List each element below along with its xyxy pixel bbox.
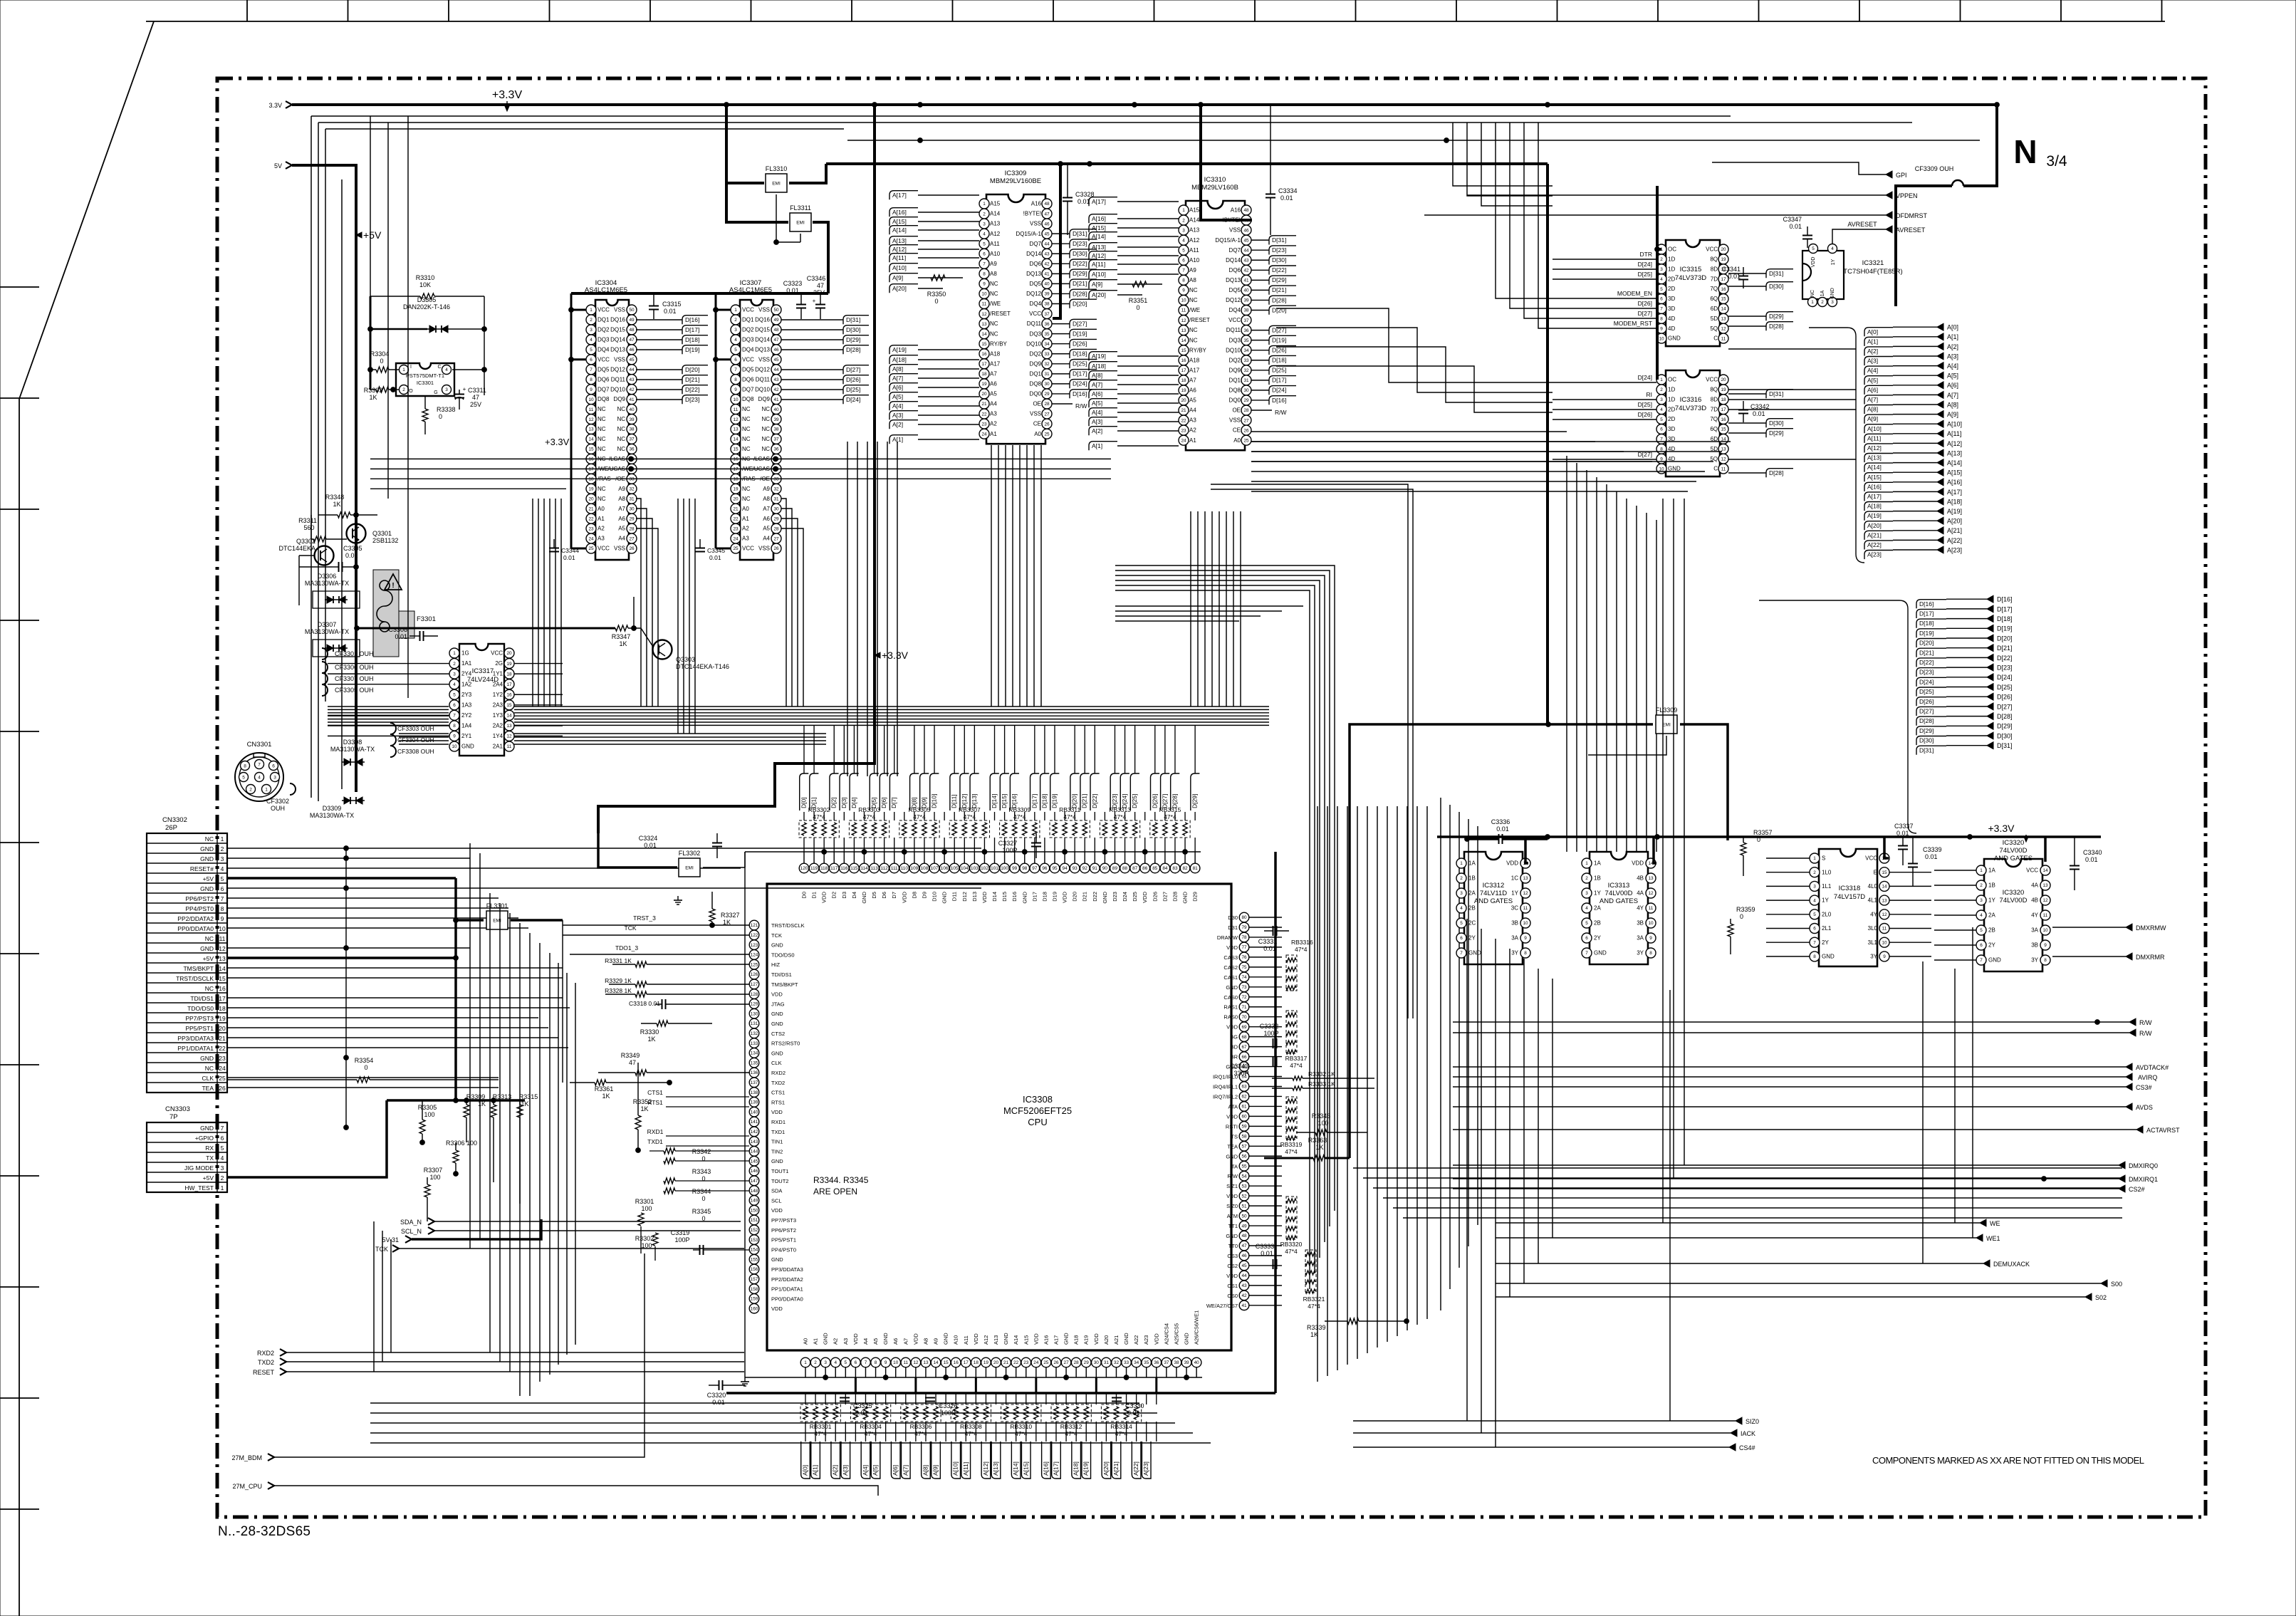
bus flags A[..] left of IC3310	[1089, 197, 1117, 451]
svg-text:R3357: R3357	[1753, 829, 1773, 836]
svg-text:5: 5	[983, 241, 986, 246]
svg-text:IRQ7/IPL2: IRQ7/IPL2	[1213, 1093, 1238, 1100]
svg-text:IC3301: IC3301	[417, 380, 434, 386]
svg-text:36: 36	[1243, 328, 1249, 333]
svg-text:D[18]: D[18]	[1040, 794, 1048, 808]
svg-text:R/W: R/W	[2139, 1030, 2152, 1037]
svg-text:DQ9: DQ9	[614, 396, 626, 402]
svg-text:RESET: RESET	[253, 1369, 275, 1376]
svg-text:NC: NC	[742, 406, 751, 412]
svg-text:D[18]: D[18]	[1997, 615, 2013, 622]
svg-text:Q3302: Q3302	[296, 538, 315, 545]
svg-text:42: 42	[1243, 269, 1249, 273]
svg-text:6: 6	[855, 1360, 857, 1365]
svg-text:PP2/DDATA2: PP2/DDATA2	[177, 915, 214, 922]
svg-text:11: 11	[1721, 336, 1726, 341]
capacitor C3308	[388, 626, 438, 641]
svg-text:CF3309 OUH: CF3309 OUH	[1915, 165, 1954, 172]
svg-text:DQ6: DQ6	[1229, 267, 1241, 273]
svg-text:+3.3V: +3.3V	[545, 437, 570, 447]
svg-text:D[23]: D[23]	[1272, 246, 1286, 254]
svg-text:22: 22	[1013, 1360, 1019, 1365]
svg-text:A10: A10	[953, 1335, 959, 1345]
svg-text:NC: NC	[205, 985, 214, 992]
svg-text:6: 6	[734, 358, 737, 363]
svg-text:TRST/DSCLK: TRST/DSCLK	[176, 975, 214, 982]
signal ACTAVRST	[1453, 1126, 2180, 1134]
svg-text:3A: 3A	[1637, 935, 1644, 942]
svg-text:D[27]: D[27]	[1638, 310, 1652, 317]
svg-text:DQ6: DQ6	[598, 376, 610, 382]
svg-text:VSS: VSS	[1030, 411, 1041, 417]
svg-text:NC: NC	[598, 426, 606, 432]
svg-text:A6: A6	[1189, 387, 1196, 394]
svg-text:TXD2: TXD2	[771, 1080, 785, 1086]
svg-text:10K: 10K	[419, 281, 431, 288]
svg-text:A[20]: A[20]	[1867, 522, 1882, 529]
svg-text:37: 37	[1164, 1360, 1169, 1365]
svg-text:C3315: C3315	[662, 301, 682, 308]
svg-text:A[9]: A[9]	[932, 1465, 939, 1476]
svg-text:D[20]: D[20]	[1919, 640, 1934, 647]
svg-text:R/W: R/W	[1227, 1173, 1238, 1179]
svg-text:D[24]: D[24]	[1121, 794, 1128, 808]
svg-text:D28: D28	[1172, 892, 1178, 902]
svg-text:D[28]: D[28]	[1769, 323, 1783, 330]
svg-text:D[30]: D[30]	[1769, 283, 1783, 290]
svg-text:107: 107	[931, 866, 939, 871]
svg-text:IC3321: IC3321	[1862, 259, 1884, 267]
svg-text:47*4: 47*4	[1285, 1248, 1298, 1255]
svg-text:DQ0: DQ0	[1030, 391, 1042, 397]
svg-text:7: 7	[1585, 951, 1588, 956]
svg-text:12: 12	[506, 734, 512, 739]
svg-text:GND: GND	[200, 945, 214, 952]
svg-text:9: 9	[1649, 936, 1652, 941]
svg-text:GND: GND	[1822, 954, 1835, 960]
svg-text:9: 9	[221, 915, 224, 922]
wire left lower verticals	[374, 1221, 391, 1372]
svg-text:4: 4	[1585, 906, 1588, 911]
CPU left pin column	[749, 920, 804, 1313]
svg-text:3: 3	[1585, 891, 1588, 896]
svg-text:VSS: VSS	[758, 546, 770, 552]
svg-text:0: 0	[439, 413, 442, 420]
svg-text:SDA_N: SDA_N	[400, 1219, 422, 1226]
wire FL3309 sense	[1588, 736, 1666, 755]
svg-text:A[8]: A[8]	[1867, 406, 1878, 413]
capacitor C3343	[1230, 1056, 1277, 1077]
svg-text:/WE: /WE	[1189, 307, 1200, 313]
svg-text:330P: 330P	[1233, 1070, 1248, 1077]
svg-text:VDD: VDD	[821, 891, 828, 902]
svg-text:C3320: C3320	[707, 1392, 726, 1399]
svg-text:RB3316: RB3316	[1291, 939, 1313, 946]
svg-text:R/W: R/W	[2139, 1019, 2152, 1026]
svg-text:9: 9	[1883, 954, 1886, 959]
svg-text:98: 98	[1022, 866, 1028, 871]
svg-text:A10: A10	[1189, 257, 1200, 264]
wire flash-CPU verticals	[847, 442, 897, 776]
svg-text:E: E	[1874, 869, 1877, 875]
svg-text:VDD: VDD	[1226, 1193, 1238, 1199]
svg-text:3: 3	[221, 1164, 224, 1172]
svg-text:A19: A19	[1083, 1335, 1090, 1345]
svg-text:DQ6: DQ6	[1030, 261, 1042, 267]
svg-text:15: 15	[219, 975, 226, 982]
junction dots rail D	[918, 138, 923, 143]
svg-text:8: 8	[983, 272, 986, 277]
svg-text:11: 11	[1523, 906, 1528, 911]
svg-text:C: C	[1713, 466, 1718, 472]
svg-text:1K: 1K	[619, 640, 627, 647]
svg-text:NC: NC	[205, 1065, 214, 1072]
svg-text:DQ1: DQ1	[1030, 370, 1042, 377]
svg-text:4Y: 4Y	[2031, 912, 2038, 919]
svg-text:R3333 1K: R3333 1K	[1308, 1080, 1335, 1088]
wire thin rail C	[325, 128, 844, 130]
connector CN3303 7P	[147, 1105, 227, 1192]
svg-text:PP7/PST3: PP7/PST3	[771, 1217, 796, 1224]
wire FL3310 sense	[776, 194, 800, 242]
svg-text:42: 42	[773, 387, 779, 392]
svg-text:DQ9: DQ9	[1229, 367, 1241, 373]
svg-text:D[18]: D[18]	[1919, 620, 1934, 627]
svg-text:A[10]: A[10]	[892, 264, 907, 271]
wire CN3303 +5V thick	[227, 1100, 387, 1177]
resistor R3306	[446, 1140, 477, 1176]
svg-text:26: 26	[1243, 428, 1249, 433]
svg-text:A[3]: A[3]	[842, 1465, 849, 1476]
svg-text:D[17]: D[17]	[1272, 377, 1286, 384]
regulator IC3301 PST575DMT-T1	[396, 363, 454, 396]
svg-text:D[16]: D[16]	[1073, 390, 1087, 397]
svg-text:7: 7	[221, 895, 224, 902]
svg-text:A13: A13	[1189, 227, 1200, 234]
svg-text:NC: NC	[990, 320, 998, 327]
signal CS4#	[1353, 1444, 1755, 1451]
svg-text:CTS1: CTS1	[647, 1089, 663, 1096]
resistor packs RB3301-RB3314 below CPU	[800, 1404, 1142, 1437]
svg-text:CAS3: CAS3	[1223, 954, 1238, 961]
svg-text:560: 560	[303, 524, 314, 531]
svg-text:A9: A9	[1189, 267, 1196, 273]
svg-text:1: 1	[402, 367, 405, 372]
svg-text:D[17]: D[17]	[1073, 370, 1087, 377]
svg-text:1D: 1D	[1668, 256, 1675, 263]
svg-text:2SB1132: 2SB1132	[372, 537, 398, 544]
svg-text:TXD1: TXD1	[647, 1138, 663, 1145]
svg-text:A7: A7	[618, 506, 625, 512]
wires IC3317 right	[514, 664, 563, 736]
junction dots mid rail	[1058, 162, 1063, 167]
resistor R3351	[1129, 281, 1148, 311]
svg-text:25: 25	[219, 1075, 226, 1082]
signal AVDS	[1453, 1103, 2153, 1111]
svg-text:14: 14	[588, 437, 594, 442]
svg-text:9: 9	[1524, 936, 1527, 941]
svg-text:PP5/PST1: PP5/PST1	[185, 1025, 214, 1032]
svg-text:43: 43	[1044, 251, 1050, 256]
svg-text:10: 10	[1523, 921, 1528, 926]
svg-text:55: 55	[1241, 1164, 1247, 1169]
svg-text:NC: NC	[742, 426, 751, 432]
svg-text:3D: 3D	[1668, 426, 1675, 432]
svg-text:41: 41	[1243, 278, 1249, 283]
signal VPPEN	[1467, 192, 1918, 199]
svg-text:I: I	[410, 365, 412, 370]
svg-text:D[30]: D[30]	[1272, 256, 1286, 264]
transistor Q3301 2SB1132	[347, 515, 399, 544]
svg-text:50: 50	[629, 308, 635, 313]
svg-text:DEMUXACK: DEMUXACK	[1993, 1261, 2030, 1268]
svg-text:4: 4	[1980, 913, 1983, 918]
capacitor C3342	[1738, 401, 1770, 422]
svg-text:3B: 3B	[1511, 920, 1518, 927]
svg-text:19: 19	[1181, 388, 1186, 393]
svg-text:19: 19	[506, 662, 512, 667]
svg-text:20: 20	[1721, 377, 1726, 382]
bus flags D[..] right of IC3310	[1251, 236, 1296, 416]
svg-text:A[12]: A[12]	[1867, 444, 1882, 452]
svg-text:5: 5	[590, 348, 593, 353]
wire FL3301 out	[511, 919, 563, 922]
svg-text:5: 5	[734, 348, 737, 353]
svg-text:22: 22	[733, 516, 739, 521]
svg-text:24: 24	[1033, 1360, 1039, 1365]
svg-text:DQ1: DQ1	[742, 317, 754, 323]
svg-text:79: 79	[1241, 925, 1247, 930]
svg-text:14: 14	[1181, 338, 1186, 343]
svg-text:R3361: R3361	[595, 1085, 614, 1093]
svg-text:3L0: 3L0	[1868, 925, 1878, 932]
svg-text:RTS1: RTS1	[771, 1099, 785, 1105]
svg-text:137: 137	[751, 1080, 758, 1085]
svg-text:D[25]: D[25]	[1272, 367, 1286, 374]
svg-text:4: 4	[1660, 277, 1663, 282]
svg-text:DQ3: DQ3	[742, 336, 754, 343]
svg-text:39: 39	[1243, 298, 1249, 303]
resistor packs RB3302-RB3315 above CPU	[799, 806, 1190, 838]
svg-text:VDD: VDD	[852, 1333, 859, 1345]
svg-text:73: 73	[1241, 985, 1247, 990]
svg-text:R3330: R3330	[640, 1028, 659, 1036]
svg-text:90: 90	[1102, 866, 1108, 871]
svg-text:A[16]: A[16]	[1947, 479, 1962, 486]
resistors R3332 R3333	[1272, 1070, 1374, 1090]
svg-text:D18: D18	[1041, 892, 1048, 902]
svg-text:7: 7	[1460, 951, 1463, 956]
svg-text:40: 40	[629, 407, 635, 412]
svg-text:3B: 3B	[2031, 942, 2038, 949]
flash IC3309 MBM29LV160BE	[979, 170, 1052, 444]
vertical GND junction column x486	[345, 848, 347, 1127]
svg-text:146: 146	[751, 1169, 758, 1174]
svg-text:VCC: VCC	[2026, 867, 2038, 874]
svg-text:A[3]: A[3]	[1947, 353, 1958, 360]
wires CPU bottom stubs to A flags	[805, 1393, 1157, 1442]
svg-text:47: 47	[1241, 1244, 1247, 1249]
svg-text:42: 42	[629, 387, 635, 392]
net RESET entry	[253, 1368, 744, 1376]
svg-text:5: 5	[453, 692, 456, 697]
svg-text:A15: A15	[1189, 207, 1200, 214]
svg-text:GND: GND	[1102, 891, 1108, 903]
svg-text:30: 30	[773, 506, 779, 511]
logic IC3313 74LV00D	[1582, 852, 1656, 964]
svg-text:BR: BR	[1231, 1054, 1238, 1060]
svg-text:82: 82	[1182, 866, 1188, 871]
svg-text:25: 25	[1043, 1360, 1049, 1365]
svg-text:10: 10	[893, 1360, 899, 1365]
wire mid horizontals	[1251, 442, 1731, 491]
svg-text:10: 10	[981, 292, 987, 297]
svg-text:D[23]: D[23]	[1919, 669, 1934, 676]
svg-text:3D: 3D	[1668, 306, 1675, 312]
svg-text:NC: NC	[1189, 327, 1198, 333]
sheet top ruler ticks	[247, 0, 2162, 21]
svg-text:R3306 100: R3306 100	[446, 1140, 477, 1147]
wire IC3301 cluster	[368, 296, 487, 395]
wire long verticals right of CPU	[1467, 499, 1684, 1447]
svg-text:32: 32	[1044, 362, 1050, 367]
svg-text:132: 132	[751, 1031, 758, 1036]
svg-text:74LV00D: 74LV00D	[2000, 847, 2028, 855]
svg-text:7: 7	[1182, 269, 1185, 273]
svg-text:C3345: C3345	[707, 547, 725, 554]
svg-text:A16: A16	[1031, 201, 1042, 207]
DRAM IC3304 A54LC1M65E5	[585, 279, 637, 560]
svg-text:36: 36	[773, 447, 779, 452]
svg-text:46: 46	[1243, 228, 1249, 233]
svg-text:2B: 2B	[1468, 905, 1476, 912]
svg-text:GND: GND	[200, 845, 214, 853]
resistor R3309	[464, 1093, 486, 1142]
svg-text:A[19]: A[19]	[1947, 508, 1962, 515]
svg-text:A[2]: A[2]	[832, 1465, 839, 1476]
svg-text:NC: NC	[742, 496, 751, 502]
svg-text:A[20]: A[20]	[1092, 291, 1106, 298]
svg-text:30: 30	[1094, 1360, 1100, 1365]
svg-text:D[16]: D[16]	[1919, 600, 1934, 608]
svg-text:A18: A18	[990, 350, 1001, 357]
svg-text:7: 7	[865, 1360, 867, 1365]
svg-text:1K: 1K	[640, 1105, 648, 1112]
svg-text:A[18]: A[18]	[892, 356, 907, 363]
svg-text:D15: D15	[1001, 892, 1008, 902]
svg-text:46: 46	[1044, 221, 1050, 226]
svg-text:7Q: 7Q	[1710, 416, 1718, 422]
svg-text:C3336: C3336	[1491, 818, 1510, 825]
svg-text:NC: NC	[742, 446, 751, 452]
svg-text:8: 8	[244, 763, 246, 768]
svg-text:4: 4	[1831, 246, 1834, 251]
svg-text:17: 17	[219, 995, 226, 1002]
svg-text:A[8]: A[8]	[1092, 372, 1102, 379]
svg-text:40: 40	[1194, 1360, 1200, 1365]
svg-text:17: 17	[981, 362, 987, 367]
svg-text:A[16]: A[16]	[1867, 483, 1882, 490]
capacitor C3341	[1721, 266, 1748, 288]
svg-text:DQ12: DQ12	[1226, 297, 1241, 303]
svg-text:2A: 2A	[1468, 890, 1476, 897]
svg-text:NC: NC	[205, 935, 214, 942]
svg-text:DQ1: DQ1	[1229, 377, 1241, 383]
svg-text:D[17]: D[17]	[1997, 605, 2013, 612]
svg-text:37: 37	[773, 437, 779, 442]
svg-text:12: 12	[1721, 326, 1726, 331]
svg-text:122: 122	[751, 933, 758, 938]
svg-text:A[18]: A[18]	[1073, 1461, 1080, 1476]
svg-text:A[10]: A[10]	[1947, 421, 1962, 428]
svg-text:A[11]: A[11]	[1092, 261, 1105, 268]
svg-text:15: 15	[1181, 348, 1186, 353]
svg-text:MODEM_RST: MODEM_RST	[1614, 320, 1652, 327]
svg-text:100: 100	[424, 1111, 434, 1118]
svg-text:12: 12	[1523, 891, 1528, 896]
capacitor C3347	[1783, 216, 1812, 248]
svg-text:RESET#: RESET#	[190, 865, 214, 872]
resistor R3304	[370, 350, 399, 372]
svg-text:C3323: C3323	[783, 280, 803, 287]
svg-text:1G: 1G	[461, 650, 469, 657]
svg-text:A23: A23	[1143, 1335, 1149, 1345]
capacitor C3331	[1258, 926, 1289, 952]
svg-text:24: 24	[588, 536, 594, 541]
svg-text:D[27]: D[27]	[1161, 794, 1168, 808]
svg-text:13: 13	[1181, 328, 1186, 333]
svg-text:A[22]: A[22]	[1947, 537, 1962, 544]
svg-text:A1: A1	[742, 516, 749, 522]
svg-text:1B: 1B	[1988, 882, 1995, 889]
svg-text:GND: GND	[1184, 1333, 1190, 1345]
svg-text:GND: GND	[200, 885, 214, 892]
svg-text:A[20]: A[20]	[892, 285, 907, 292]
svg-text:A[7]: A[7]	[892, 375, 903, 382]
svg-text:A2: A2	[742, 526, 749, 532]
svg-text:1A: 1A	[1988, 867, 1995, 874]
svg-text:SIZ0: SIZ0	[1226, 1203, 1238, 1209]
svg-text:22: 22	[219, 1045, 226, 1052]
svg-text:57: 57	[1241, 1145, 1247, 1150]
svg-text:EMI: EMI	[1662, 723, 1671, 728]
svg-text:A[2]: A[2]	[1867, 348, 1878, 355]
wire thick 3.3V column x1228	[598, 105, 875, 833]
svg-text:A5: A5	[1189, 397, 1196, 404]
svg-text:A0: A0	[1233, 437, 1241, 444]
svg-text:50: 50	[1241, 1214, 1247, 1219]
svg-text:C3305: C3305	[343, 545, 362, 552]
svg-text:39: 39	[1184, 1360, 1189, 1365]
resistor R3354	[227, 1057, 499, 1083]
svg-text:4L1: 4L1	[1868, 897, 1878, 904]
junction dots on 3.3V rail	[724, 103, 729, 108]
svg-text:9: 9	[983, 282, 986, 287]
svg-text:DQ6: DQ6	[742, 376, 754, 382]
svg-text:1K: 1K	[478, 1100, 486, 1107]
svg-text:1D: 1D	[1668, 387, 1675, 393]
svg-text:D5: D5	[871, 892, 877, 899]
svg-text:A[9]: A[9]	[1092, 281, 1102, 288]
diode pack D3309 MA3130WA-TX	[310, 797, 365, 819]
svg-text:A[1]: A[1]	[812, 1465, 819, 1476]
svg-text:A[23]: A[23]	[1142, 1461, 1149, 1476]
svg-text:0.01: 0.01	[1496, 825, 1509, 833]
svg-text:A14: A14	[1013, 1335, 1019, 1345]
svg-text:DQ11: DQ11	[611, 376, 626, 382]
svg-text:TEA: TEA	[202, 1085, 214, 1092]
svg-text:D9: D9	[921, 892, 927, 899]
